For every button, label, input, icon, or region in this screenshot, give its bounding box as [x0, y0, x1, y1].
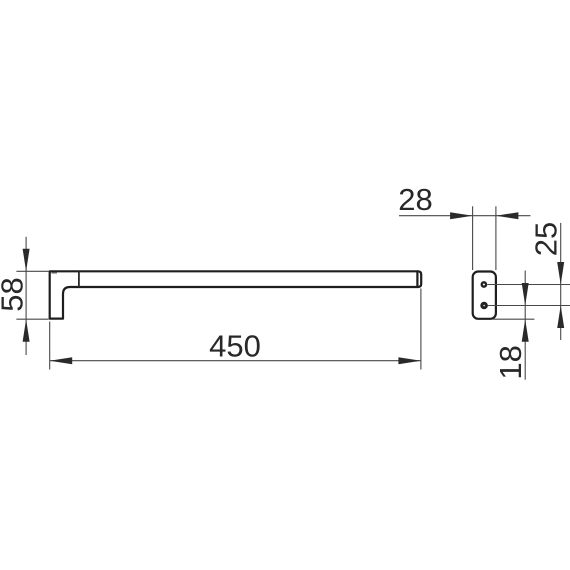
dim 450 arrow left: [50, 357, 72, 364]
hole reference line upper: [487, 284, 570, 286]
dim 58 dimension line: [25, 237, 27, 355]
screw hole upper: [482, 282, 486, 286]
plate bottom reference line: [493, 318, 534, 320]
dim 28 extension line right: [495, 206, 497, 270]
dim 450 extension line right: [420, 289, 422, 370]
screw hole lower: [482, 303, 487, 308]
svg-text:18: 18: [493, 345, 528, 379]
small weld tick at bracket top corner: [52, 272, 58, 274]
joint line between bracket post and bar: [78, 271, 80, 287]
svg-text:58: 58: [0, 277, 29, 311]
dim 58 arrow up: [23, 319, 30, 342]
hole reference line lower: [488, 305, 570, 307]
dim 58 extension line top: [16, 270, 48, 272]
dim 28 extension line left: [472, 206, 474, 270]
dim 58 arrow down: [23, 249, 30, 271]
dim 58 extension line bottom: [16, 318, 48, 320]
dim 450 arrow right: [398, 357, 421, 364]
bar end cap inner line: [416, 271, 418, 287]
dim 28 dimension line: [399, 215, 531, 217]
dim 18 arrow down: [522, 283, 529, 306]
dim 25 arrow up: [557, 306, 564, 329]
dim 25 dimension line: [560, 223, 562, 340]
dim 450 extension line left: [49, 322, 51, 370]
dim 28 arrow right-pointing: [450, 212, 473, 219]
svg-text:25: 25: [529, 222, 564, 256]
wall plate, front view rounded rect: [473, 272, 496, 319]
dim 28 arrow left-pointing: [496, 212, 519, 219]
dim 25 arrow down: [557, 262, 564, 285]
dim 18 dimension line: [524, 271, 526, 380]
towel bar with bracket, side profile outline: [50, 271, 422, 318]
dim 18 arrow up: [522, 319, 529, 342]
svg-text:450: 450: [209, 329, 261, 364]
dim 450 dimension line: [50, 360, 421, 362]
svg-text:28: 28: [398, 182, 432, 217]
